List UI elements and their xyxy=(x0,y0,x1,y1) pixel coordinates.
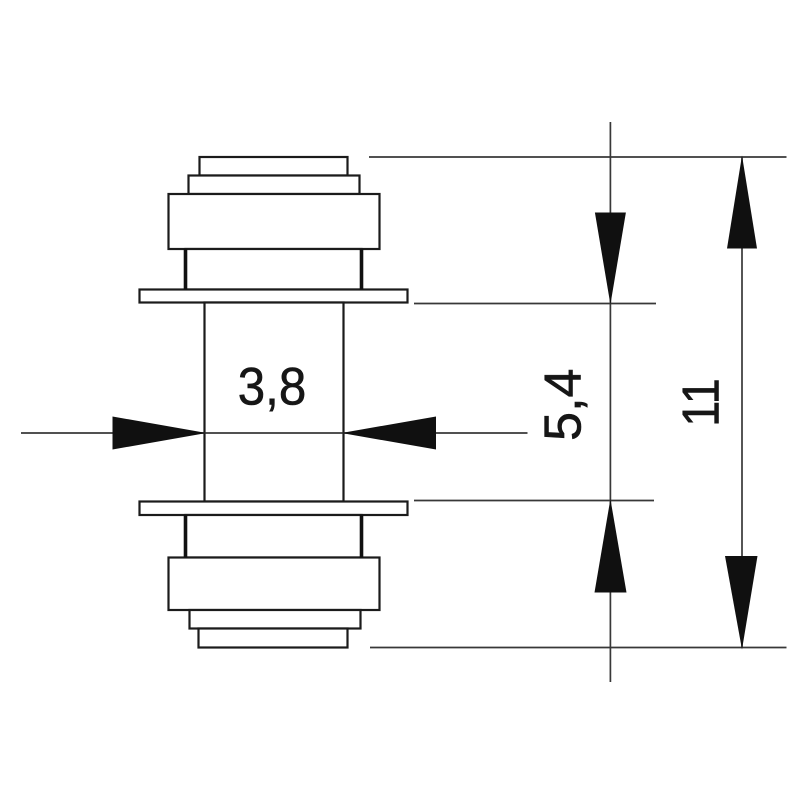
svg-text:3,8: 3,8 xyxy=(238,357,307,416)
dimension line 11 vertical xyxy=(741,157,743,648)
extension line upper flange bottom (5,4) xyxy=(414,303,656,305)
top bushing thick sides xyxy=(186,249,362,290)
top cap rect xyxy=(200,157,348,176)
top wheel rect xyxy=(169,194,380,249)
arrow 11 up xyxy=(727,156,757,249)
extension line top (11) xyxy=(369,156,787,158)
arrow 3,8 left xyxy=(113,417,207,450)
arrow 5,4 down xyxy=(595,213,626,305)
svg-text:5,4: 5,4 xyxy=(534,369,592,441)
bottom wheel rect xyxy=(169,558,380,611)
axle cylinder xyxy=(205,303,344,502)
bottom bushing rect xyxy=(186,515,362,558)
extension line bottom (11) xyxy=(370,647,787,649)
arrow 5,4 up xyxy=(595,499,627,593)
bottom cap rect xyxy=(199,629,348,648)
bottom flange rect xyxy=(140,502,408,516)
arrow 11 down xyxy=(725,556,758,650)
top mid rect xyxy=(189,176,360,195)
dimension line 3,8 horizontal xyxy=(21,432,528,434)
bottom bushing thick sides xyxy=(186,515,362,558)
bottom mid rect xyxy=(190,610,361,629)
extension line lower flange top (5,4) xyxy=(414,500,654,502)
arrow 3,8 right xyxy=(342,417,437,450)
top bushing rect xyxy=(186,249,362,290)
top flange rect xyxy=(140,290,408,303)
dimension line 5,4 vertical xyxy=(609,122,611,682)
svg-text:11: 11 xyxy=(672,378,730,427)
